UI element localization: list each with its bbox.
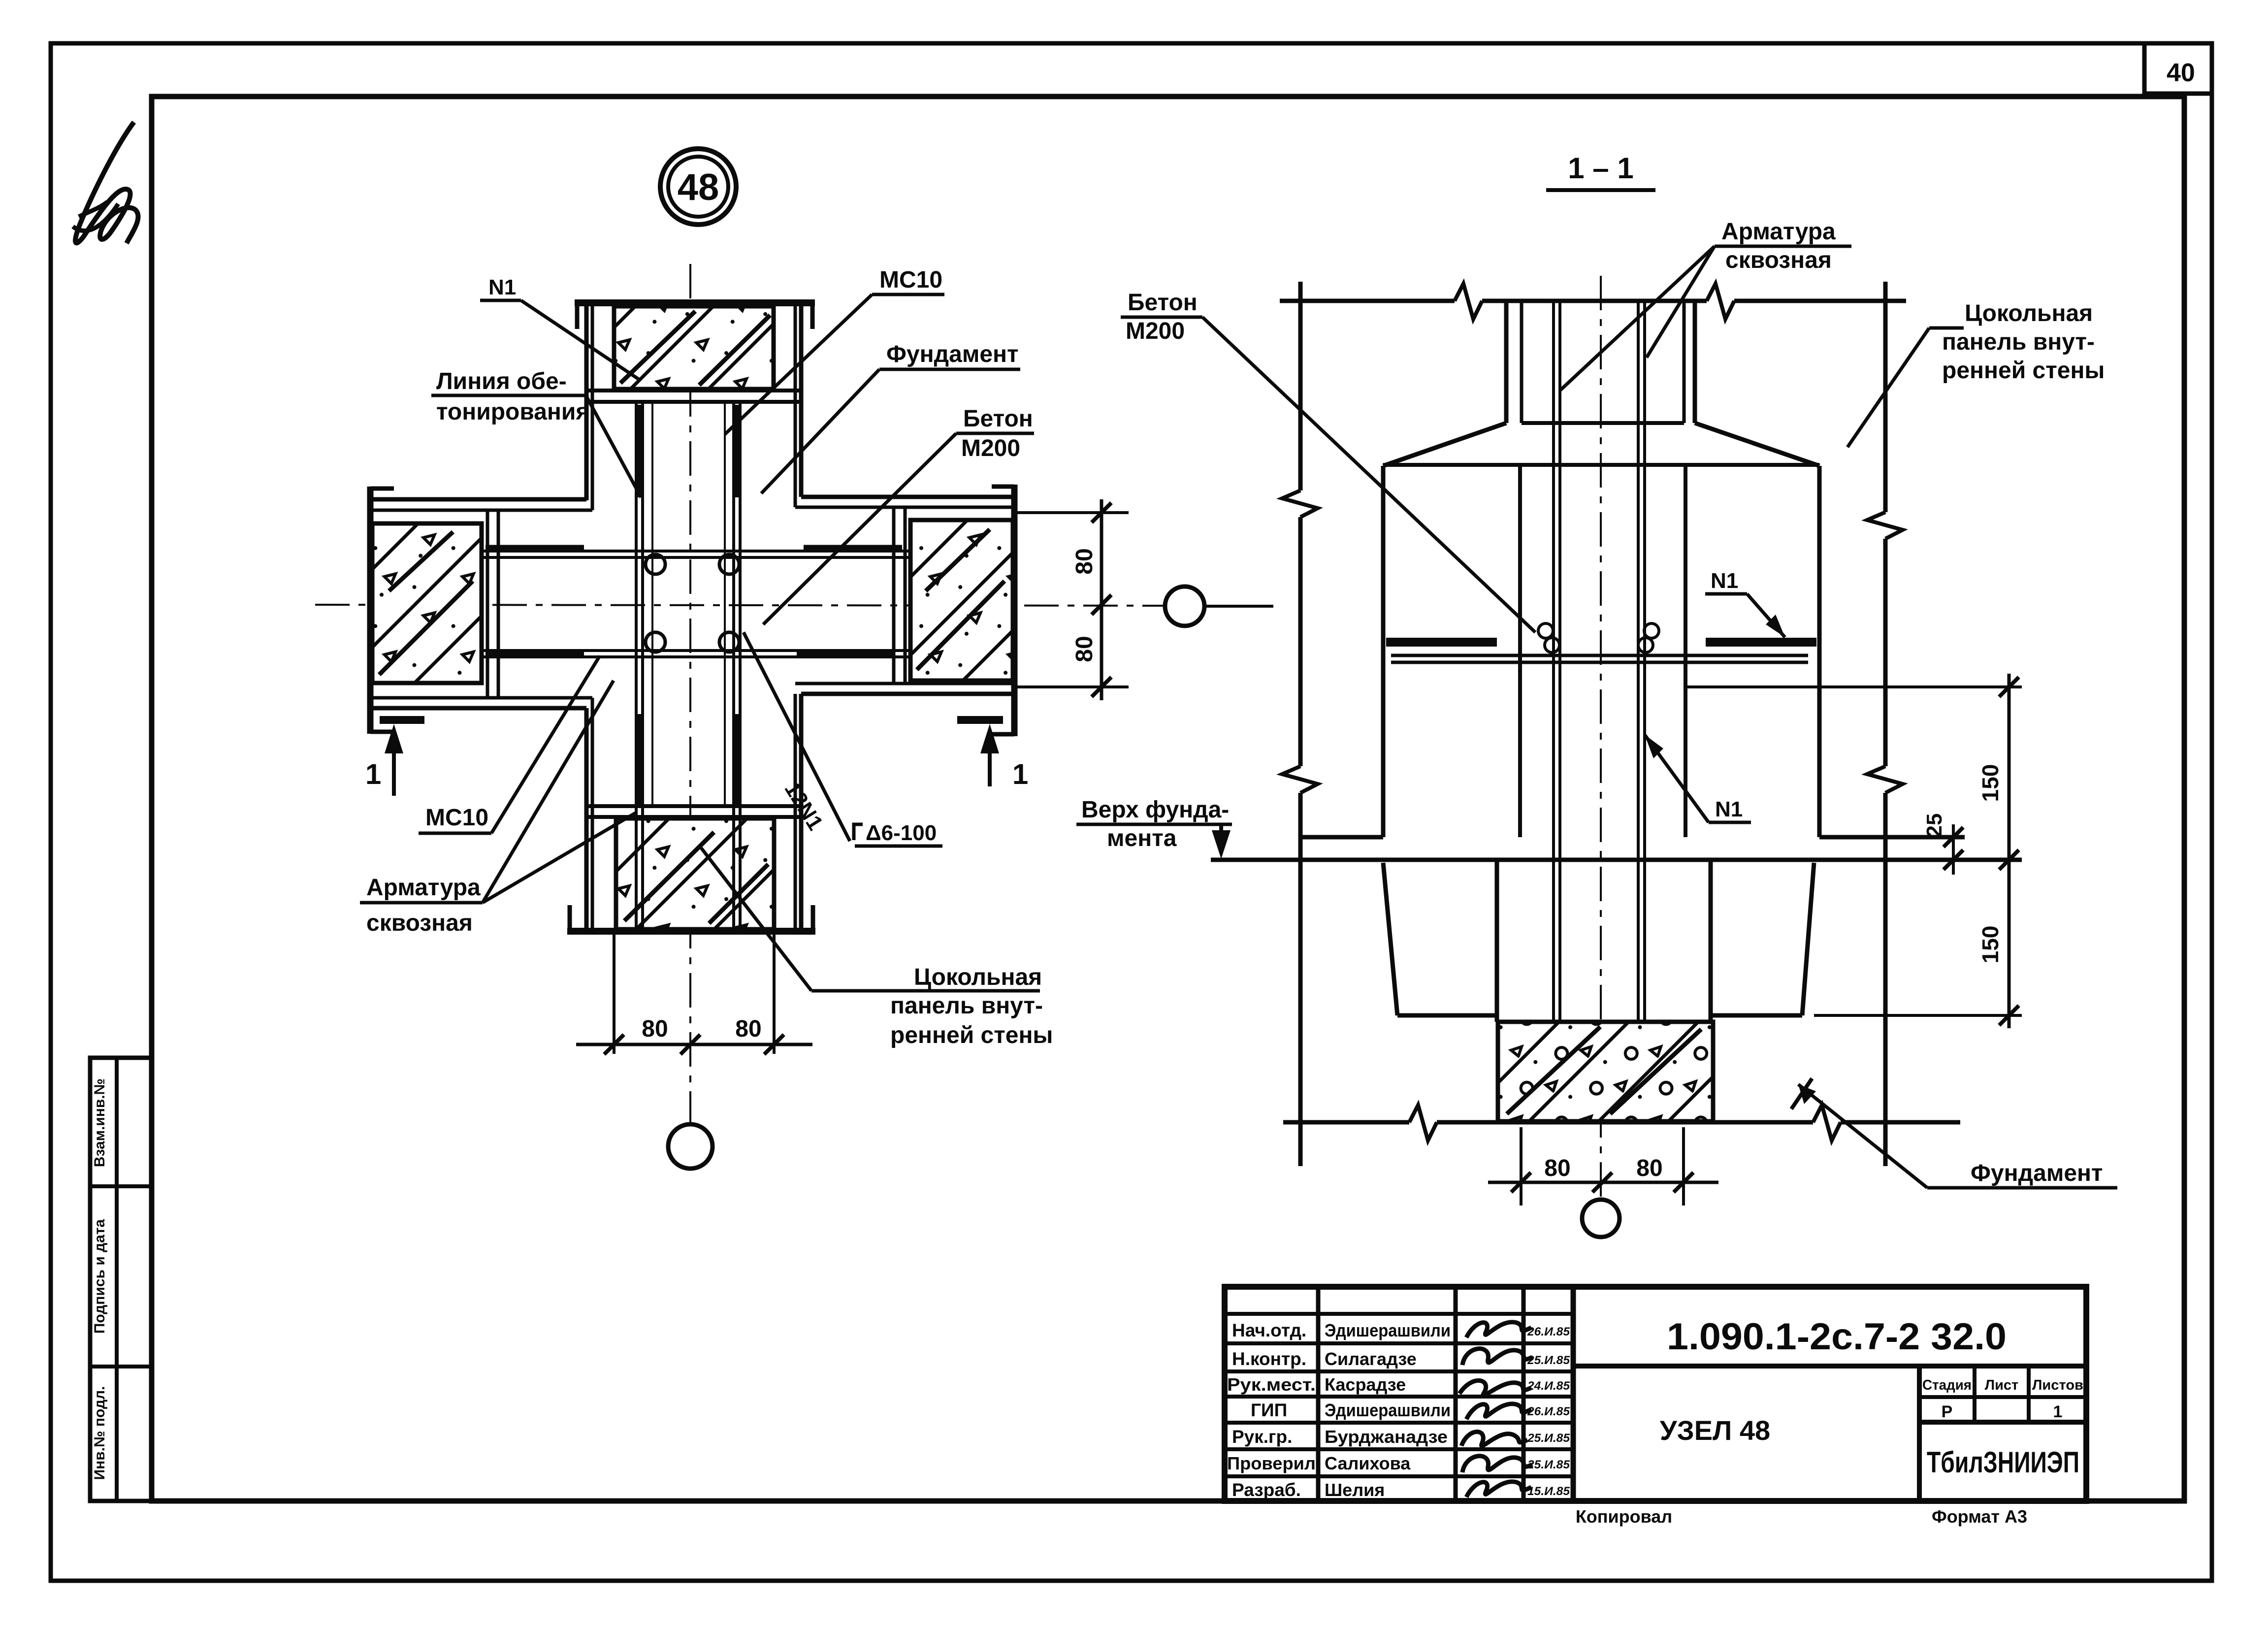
- svg-text:Листов: Листов: [2032, 1377, 2083, 1393]
- svg-text:80: 80: [1071, 548, 1098, 574]
- svg-text:М200: М200: [1126, 318, 1185, 344]
- detail bubble 48: [660, 149, 736, 225]
- section outer wall right: [1883, 282, 1888, 512]
- svg-text:15.И.85: 15.И.85: [1527, 1485, 1570, 1498]
- svg-text:1 – 1: 1 – 1: [1568, 152, 1633, 185]
- svg-text:Взам.инв.№: Взам.инв.№: [92, 1078, 108, 1167]
- mortar block bottom (hatched): [616, 818, 774, 929]
- svg-text:150: 150: [1977, 764, 2003, 802]
- inner frame: [152, 97, 2184, 1501]
- svg-text:Арматура: Арматура: [1721, 219, 1836, 245]
- svg-text:N1: N1: [488, 275, 516, 299]
- pocket walls below foundation top: [1495, 862, 1499, 1022]
- bottom panel cap line: [567, 928, 815, 935]
- svg-text:МС10: МС10: [879, 267, 942, 293]
- svg-text:тонирования: тонирования: [436, 399, 589, 425]
- svg-text:48: 48: [678, 166, 719, 208]
- svg-text:Р: Р: [1942, 1402, 1953, 1421]
- bearing ledges: [1300, 835, 1383, 840]
- through rebar horizontal pair lower: [484, 649, 910, 652]
- svg-text:панель внут-: панель внут-: [890, 993, 1043, 1019]
- svg-text:N1: N1: [1715, 797, 1743, 821]
- left arm top edges: [370, 497, 586, 502]
- svg-text:26.И.85: 26.И.85: [1527, 1325, 1570, 1338]
- through rebar vertical pair left: [635, 402, 638, 929]
- svg-text:80: 80: [1071, 636, 1098, 662]
- svg-text:Δ6-100: Δ6-100: [866, 821, 937, 845]
- left joint seam verticals: [486, 510, 489, 698]
- svg-text:Фундамент: Фундамент: [1971, 1160, 2103, 1186]
- left margin stamp table: [90, 1058, 152, 1501]
- svg-text:панель внут-: панель внут-: [1942, 329, 2095, 355]
- svg-text:Разраб.: Разраб.: [1232, 1480, 1301, 1500]
- monolithic concrete block (hatched): [1498, 1022, 1713, 1121]
- footing taper left: [1383, 863, 1397, 1015]
- svg-text:Цокольная: Цокольная: [914, 964, 1042, 990]
- signatures: [1466, 1322, 1531, 1337]
- plan horizontal centerline: [315, 605, 1164, 606]
- vertical anchor plates: [636, 405, 643, 497]
- svg-text:80: 80: [1636, 1155, 1662, 1181]
- extension line at plate level: [1687, 685, 2022, 688]
- svg-text:25: 25: [1922, 814, 1946, 838]
- right cap line: [1011, 485, 1018, 736]
- panel side faces: [1504, 301, 1509, 423]
- svg-text:80: 80: [735, 1016, 761, 1042]
- svg-text:80: 80: [642, 1016, 668, 1042]
- svg-text:Инв.№ подл.: Инв.№ подл.: [92, 1386, 108, 1480]
- left arm bottom edges: [370, 696, 592, 700]
- svg-text:24.И.85: 24.И.85: [1527, 1379, 1570, 1393]
- svg-text:Цокольная: Цокольная: [1965, 300, 2093, 326]
- section vertical centerline: [1600, 276, 1602, 1199]
- svg-text:1: 1: [2053, 1402, 2063, 1421]
- plan right axis bubble: [1165, 586, 1204, 626]
- svg-text:Стадия: Стадия: [1922, 1377, 1972, 1393]
- plan right dimension 80 80: [1016, 511, 1129, 514]
- svg-text:25.И.85: 25.И.85: [1527, 1432, 1570, 1445]
- svg-text:26.И.85: 26.И.85: [1527, 1405, 1570, 1418]
- svg-text:Эдишерашвили: Эдишерашвили: [1325, 1320, 1451, 1340]
- svg-text:мента: мента: [1107, 825, 1177, 851]
- anchor plate right: [1706, 638, 1816, 647]
- svg-text:сквозная: сквозная: [1725, 247, 1832, 273]
- bottom limb wall edges: [584, 708, 589, 931]
- tie bar N1 lines: [1391, 654, 1808, 657]
- svg-text:Силагадзе: Силагадзе: [1325, 1349, 1417, 1369]
- foundation top line: [1211, 858, 2022, 862]
- section mark 1 left: [380, 716, 424, 724]
- svg-text:Подпись и дата: Подпись и дата: [92, 1219, 108, 1334]
- svg-text:Бетон: Бетон: [1128, 290, 1198, 316]
- bar end dots: [1538, 623, 1553, 638]
- through rebar pair left (section): [1552, 301, 1555, 1020]
- rebar dots at joint: [646, 554, 665, 574]
- section bottom dimension 80 80: [1520, 1127, 1523, 1205]
- label 12N1 Д6-100: [744, 632, 850, 841]
- svg-text:80: 80: [1544, 1155, 1570, 1181]
- right panel block (hatched): [910, 520, 1013, 681]
- right arm top edges: [801, 495, 1014, 499]
- left panel block (hatched): [372, 523, 482, 683]
- svg-text:Н.контр.: Н.контр.: [1232, 1349, 1306, 1369]
- svg-text:Бурджанадзе: Бурджанадзе: [1325, 1427, 1448, 1447]
- footing taper right: [1802, 863, 1814, 1015]
- section top edge with breaks: [1280, 299, 1455, 303]
- corner box top right: [2144, 45, 2212, 94]
- plan vertical centerline: [689, 264, 691, 1124]
- plan bottom dimension 80 80: [613, 933, 616, 1054]
- svg-text:150: 150: [1977, 926, 2003, 964]
- svg-text:1: 1: [365, 758, 381, 790]
- svg-text:40: 40: [2167, 59, 2195, 87]
- svg-text:Рук.мест.: Рук.мест.: [1227, 1374, 1316, 1395]
- svg-text:Шелия: Шелия: [1325, 1480, 1385, 1500]
- svg-text:М200: М200: [961, 435, 1020, 461]
- section bottom axis bubble: [1582, 1200, 1620, 1237]
- footing bottom ledges: [1397, 1013, 1497, 1018]
- through rebar horizontal pair upper: [484, 550, 910, 553]
- formwork verticals: [651, 402, 653, 806]
- svg-text:Салихова: Салихова: [1325, 1453, 1411, 1473]
- svg-text:сквозная: сквозная: [366, 910, 473, 936]
- top joint seam lines: [586, 389, 801, 392]
- svg-text:1.090.1-2с.7-2 32.0: 1.090.1-2с.7-2 32.0: [1667, 1316, 2007, 1358]
- svg-text:N1: N1: [1711, 569, 1738, 593]
- section mark 1 right: [957, 716, 1003, 724]
- svg-text:Арматура: Арматура: [366, 875, 481, 901]
- svg-text:ГИП: ГИП: [1251, 1400, 1287, 1420]
- handwritten signature scribble top left: [75, 122, 138, 243]
- taper shoulders: [1383, 423, 1506, 466]
- left cap line: [367, 487, 374, 734]
- panel bottom edge: [1522, 421, 1684, 425]
- svg-text:ренней стены: ренней стены: [1942, 358, 2105, 384]
- svg-text:Фундамент: Фундамент: [886, 341, 1019, 367]
- svg-text:25.И.85: 25.И.85: [1527, 1354, 1570, 1367]
- break mark: [1707, 284, 1734, 319]
- svg-text:25.И.85: 25.И.85: [1527, 1458, 1570, 1471]
- foundation shoulder line: [1383, 463, 1819, 467]
- svg-text:Касрадзе: Касрадзе: [1325, 1374, 1406, 1395]
- anchor plate left: [1386, 638, 1497, 647]
- top panel cap line: [575, 299, 815, 306]
- dimension line 150 150: [2008, 674, 2011, 1028]
- svg-text:УЗЕЛ 48: УЗЕЛ 48: [1660, 1415, 1770, 1446]
- svg-text:1: 1: [1012, 758, 1028, 790]
- right joint seam verticals: [892, 507, 896, 684]
- svg-text:Рук.гр.: Рук.гр.: [1232, 1427, 1292, 1447]
- svg-text:Лист: Лист: [1985, 1377, 2019, 1393]
- svg-text:Проверил: Проверил: [1227, 1453, 1316, 1473]
- break mark: [1455, 284, 1482, 319]
- top limb wall edges: [584, 305, 589, 500]
- svg-text:Верх фунда-: Верх фунда-: [1081, 797, 1229, 823]
- svg-text:Нач.отд.: Нач.отд.: [1232, 1320, 1306, 1340]
- right arm bottom edges: [795, 682, 1014, 685]
- through rebar vertical pair right: [732, 402, 735, 929]
- svg-text:МС10: МС10: [425, 805, 488, 831]
- section outer wall left: [1298, 282, 1303, 490]
- joint pocket faces: [1518, 466, 1522, 837]
- svg-text:Линия обе-: Линия обе-: [436, 368, 567, 394]
- dimension 25: [1952, 824, 1955, 875]
- svg-text:Бетон: Бетон: [963, 406, 1033, 432]
- svg-text:ТбилЗНИИЭП: ТбилЗНИИЭП: [1927, 1446, 2079, 1479]
- svg-text:Копировал: Копировал: [1576, 1506, 1672, 1527]
- bottom joint seam lines: [586, 804, 801, 808]
- through rebar pair right (section): [1637, 301, 1640, 1020]
- svg-text:Эдишерашвили: Эдишерашвили: [1325, 1400, 1451, 1420]
- foundation outer faces: [1381, 466, 1386, 837]
- horizontal anchor plates: [486, 545, 584, 552]
- mortar block МС10 top (hatched): [614, 306, 774, 389]
- TITLE BLOCK: [1225, 1287, 2086, 1501]
- svg-text:Формат А3: Формат А3: [1932, 1506, 2027, 1527]
- plan bottom axis bubble: [668, 1124, 713, 1169]
- svg-text:ренней стены: ренней стены: [890, 1022, 1053, 1048]
- footing bottom line with breaks: [1283, 1120, 1409, 1125]
